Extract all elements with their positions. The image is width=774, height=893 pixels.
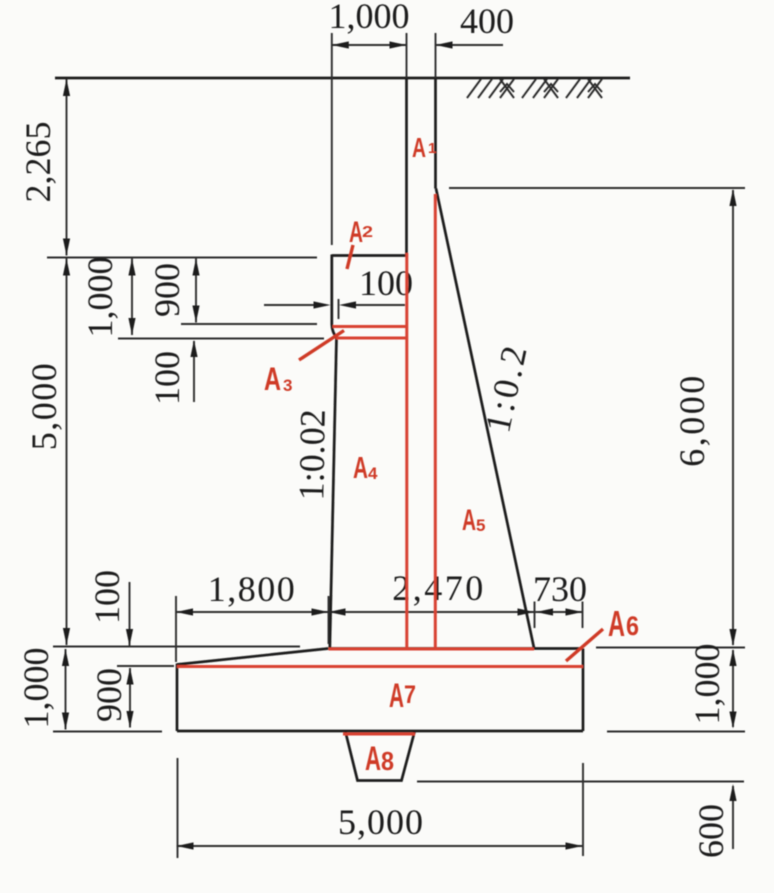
dim 600 right (732, 786, 734, 849)
footing top dim line (176, 611, 583, 613)
svg-text:5: 5 (476, 516, 485, 535)
horizontal dim 100 at notch (264, 304, 314, 306)
red line key top (343, 733, 415, 736)
left chain extension at notch-top level (47, 257, 317, 259)
svg-text:5,000: 5,000 (24, 362, 64, 451)
svg-text:100: 100 (359, 263, 413, 303)
svg-text:1: 1 (428, 140, 436, 157)
svg-text:1,000: 1,000 (687, 644, 727, 725)
svg-text:A: A (412, 132, 426, 163)
svg-text:7: 7 (404, 681, 416, 709)
dim 2,265 (66, 79, 68, 256)
notch top edge (332, 254, 407, 257)
red leader A6 (566, 629, 603, 661)
extension line 900 level (181, 323, 317, 325)
red leader A3 (299, 331, 344, 361)
right chain: extension at footing top (596, 647, 745, 649)
red line A6/A7 divider (177, 665, 583, 668)
svg-text:2,265: 2,265 (18, 122, 58, 203)
svg-text:1,800: 1,800 (208, 569, 297, 609)
notch vertical face (330, 255, 333, 326)
extension line 900 bottom level (117, 665, 174, 667)
red leader A2 (347, 245, 353, 269)
svg-text:1,000: 1,000 (329, 0, 410, 36)
left chain extension at footing-bottom level (53, 731, 162, 733)
svg-text:A: A (389, 677, 404, 715)
red line A3 upper (333, 325, 407, 328)
footing toe top slope (177, 649, 328, 665)
svg-text:6: 6 (626, 611, 639, 641)
footing heel top (534, 647, 583, 650)
svg-text:900: 900 (89, 668, 129, 722)
svg-text:1,000: 1,000 (80, 257, 120, 338)
svg-text:A: A (365, 740, 381, 778)
ground hatching (467, 79, 602, 98)
bottom-left dim 900 (129, 668, 131, 728)
footing top dims: extension lines (175, 596, 177, 662)
svg-text:6,000: 6,000 (672, 373, 712, 467)
svg-text:730: 730 (533, 569, 587, 609)
notch sub-dim 900 (195, 259, 197, 323)
dim 1,000 left bottom (65, 649, 67, 730)
top dim line 1,000 (332, 44, 407, 46)
right chain: extension at key bottom (417, 781, 744, 783)
svg-text:400: 400 (460, 1, 514, 41)
left chain extension at footing-top level (53, 646, 300, 648)
small step jog at A3 (332, 325, 337, 338)
svg-text:100: 100 (147, 351, 187, 405)
svg-text:2: 2 (362, 224, 373, 241)
dim 6,000 (732, 190, 734, 645)
wall stem left face (extension above ground) (406, 33, 408, 78)
top dim: extension line notch face (331, 33, 333, 245)
red line footing top level (329, 648, 535, 651)
svg-text:A: A (462, 504, 476, 537)
svg-text:A: A (608, 603, 625, 644)
top dim 400 leader (436, 44, 504, 46)
extension line 1,000 level (118, 338, 324, 340)
svg-text:1,000: 1,000 (16, 648, 56, 729)
svg-text:600: 600 (691, 804, 731, 858)
footing left edge (176, 664, 179, 732)
footing bottom (177, 730, 583, 733)
dim 5,000 left (66, 259, 68, 646)
right chain: extension at batter start level (449, 187, 745, 189)
svg-text:5,000: 5,000 (338, 802, 424, 842)
dim 1,000 right (732, 650, 734, 727)
svg-text:900: 900 (147, 263, 187, 317)
bottom-left dim 100 (129, 582, 131, 646)
svg-text:100: 100 (87, 570, 127, 624)
red vertical line at stem right face extended (434, 194, 437, 649)
svg-text:8: 8 (381, 746, 394, 776)
wall right battered face 1:0.2 (436, 189, 534, 649)
ground line (55, 77, 630, 80)
wall stem left face (405, 78, 408, 255)
red vertical line at stem left face extended (405, 253, 408, 649)
wall stem right face (434, 78, 437, 189)
svg-text:1:0.02: 1:0.02 (291, 409, 333, 501)
dim line 5,000 (177, 845, 583, 847)
notch sub-dim 100 (193, 341, 195, 402)
bottom dim 5,000: extensions (177, 758, 179, 858)
wall left battered face 1:0.02 (330, 338, 337, 649)
shear key trapezoid (346, 732, 415, 781)
svg-text:A: A (353, 450, 368, 485)
footing right edge (582, 649, 585, 732)
right chain: extension at footing bottom (607, 731, 745, 733)
footing top under stem (328, 647, 534, 650)
wall stem right face (extension above ground) (435, 33, 437, 78)
notch sub-dim 1,000 (131, 259, 133, 336)
svg-text:3: 3 (283, 376, 292, 395)
svg-text:A: A (349, 216, 363, 249)
red line A3 lower (336, 337, 407, 340)
svg-text:A: A (264, 361, 281, 397)
svg-text:4: 4 (368, 464, 378, 483)
